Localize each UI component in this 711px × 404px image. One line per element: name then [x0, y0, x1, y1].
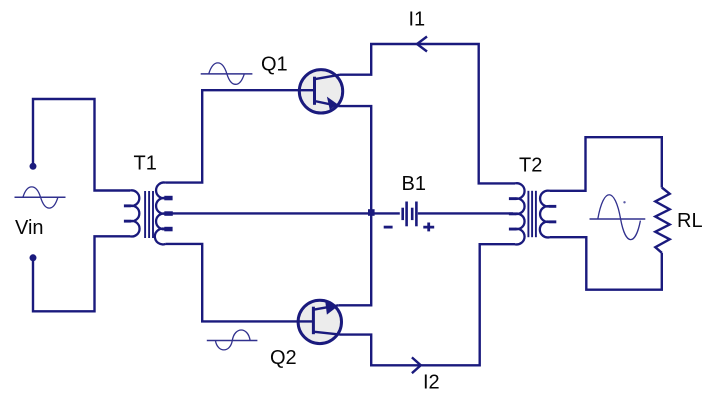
- transformer T2 core: [528, 191, 536, 237]
- stray dot artifact: [623, 201, 625, 203]
- battery B1: [403, 202, 417, 227]
- svg-text:B1: B1: [402, 173, 426, 195]
- wire T1 secondary bottom to Q2 base: [166, 244, 298, 322]
- svg-text:Q1: Q1: [261, 54, 288, 76]
- wire Q1 collector to T2 primary top (I1 loop): [340, 44, 515, 183]
- wire T1 secondary top to Q1 base: [166, 90, 300, 182]
- terminal dot Vin top: [30, 163, 37, 170]
- wire Vin top to T1 primary top: [33, 99, 130, 191]
- svg-text:I1: I1: [409, 9, 426, 31]
- terminal dot Vin bottom: [30, 254, 37, 261]
- resistor RL: [655, 188, 669, 253]
- transformer T2 secondary winding: [540, 191, 550, 238]
- transformer T1 core: [145, 191, 153, 238]
- transistor Q2: [297, 300, 341, 343]
- junction node at B1: [368, 209, 375, 216]
- wire battery to T2 center tap: [418, 212, 513, 214]
- svg-text:RL: RL: [677, 210, 703, 232]
- wire Q2 collector to T2 primary bottom (I2 loop): [340, 244, 515, 365]
- output sine symbol: [590, 195, 646, 240]
- transformer T1 primary winding: [130, 190, 140, 236]
- wire T2 secondary top to load loop: [550, 137, 662, 191]
- transistor Q1: [299, 70, 343, 113]
- svg-text:Q2: Q2: [270, 347, 297, 369]
- wire center rail T1 center tap to battery: [170, 212, 400, 214]
- wire Q2 emitter up to junction: [338, 213, 371, 305]
- transformer T2 primary winding (center-tapped): [515, 183, 525, 244]
- battery plus sign: [423, 223, 434, 232]
- transformer T1 secondary winding (center-tapped): [155, 182, 166, 244]
- wire T2 secondary bottom to load loop: [550, 237, 662, 290]
- source Vin sine symbol: [15, 187, 66, 208]
- current arrow I2: [412, 357, 421, 373]
- wire Q1 emitter down to junction: [339, 106, 372, 213]
- svg-text:T2: T2: [519, 155, 542, 177]
- svg-text:I2: I2: [423, 371, 440, 393]
- battery minus sign: [384, 226, 393, 229]
- current arrow I1: [417, 37, 427, 52]
- sine symbol at Q2 input (inverted phase): [207, 330, 258, 350]
- svg-text:T1: T1: [134, 153, 157, 175]
- sine symbol at Q1 input: [201, 63, 253, 84]
- wire Vin bottom to T1 primary bottom: [33, 236, 130, 311]
- svg-text:Vin: Vin: [15, 217, 44, 239]
